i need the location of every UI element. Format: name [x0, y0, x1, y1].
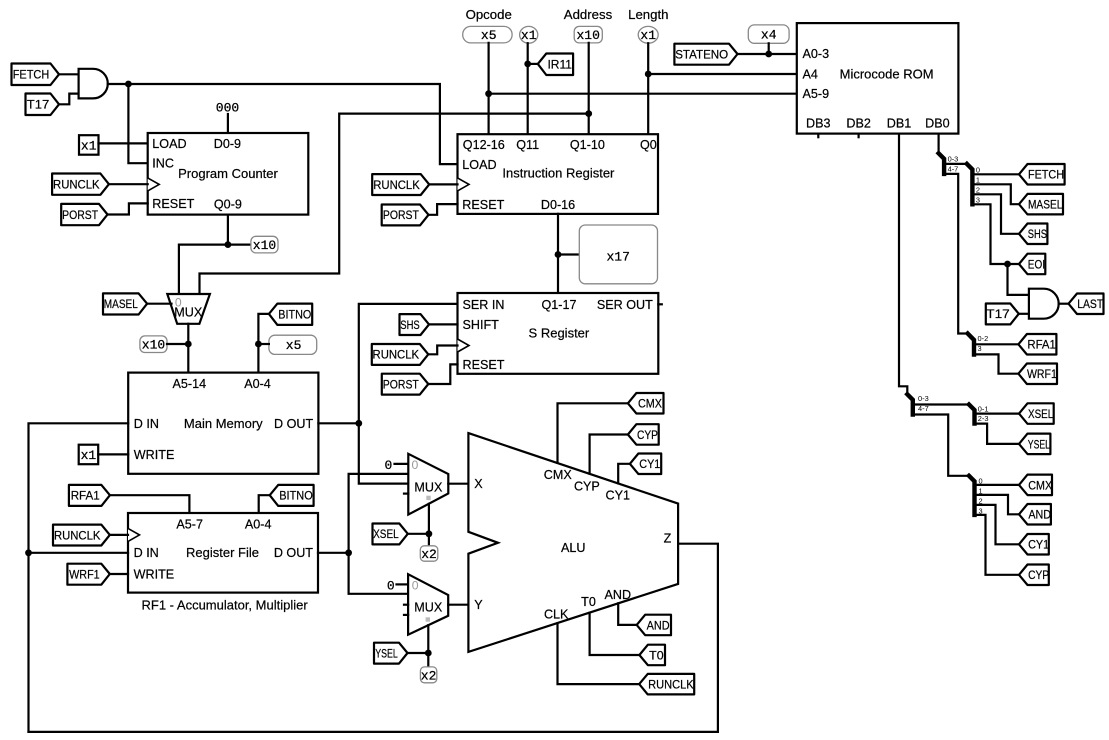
tunnel BITNO (Main Memory) [269, 304, 312, 325]
svg-text:Opcode: Opcode [466, 7, 512, 22]
svg-text:CMX: CMX [1028, 478, 1052, 492]
wire U1 output to junction [108, 83, 129, 85]
wire junction to Main Memory A0-4 [257, 344, 259, 373]
svg-text:IR11: IR11 [547, 57, 572, 71]
mux Y M3 [408, 574, 448, 635]
svg-text:AND: AND [605, 588, 632, 602]
svg-text:RUNCLK: RUNCLK [373, 178, 420, 192]
svg-text:RUNCLK: RUNCLK [54, 528, 101, 542]
wire S5 bits 0-1 to XSEL [975, 413, 1020, 415]
wire MUX Y output to ALU Y [448, 604, 468, 606]
wire YSEL to Y select node [408, 652, 429, 654]
junction IR11 tap [524, 61, 531, 68]
svg-text:Address: Address [564, 7, 613, 22]
svg-text:SHS: SHS [400, 318, 420, 332]
wire PC output to MUX M1 input 0 [179, 245, 228, 294]
svg-text:RESET: RESET [462, 198, 504, 212]
splitter S6 (DB1 bits 4-7) [969, 476, 975, 515]
wire ALU CYP port to tunnel [590, 435, 628, 474]
wire PORST to PC RESET [108, 203, 148, 214]
tunnel MASEL (microcode bit) [1019, 194, 1063, 215]
junction RF data out node [345, 549, 352, 556]
pin x1 (Main Memory WRITE) [79, 445, 99, 465]
svg-text:A4: A4 [803, 68, 818, 82]
pin stub SER OUT [658, 303, 662, 305]
svg-text:XSEL: XSEL [373, 527, 399, 541]
wire T17 to AND gate U9 input 2 [1019, 313, 1029, 315]
probe x10 (address field) [574, 26, 602, 43]
probe x1 (IR11 bit) [520, 26, 538, 43]
svg-text:A0-4: A0-4 [245, 518, 272, 532]
select marker square MUX X [426, 496, 430, 500]
wire S1 branch 4-7 down to splitter S3 [944, 174, 968, 334]
svg-text:0-3: 0-3 [918, 394, 929, 403]
clock pin triangle of U2 [148, 178, 160, 191]
wire RF D OUT to junction [318, 552, 349, 554]
svg-text:RUNCLK: RUNCLK [373, 348, 420, 362]
wire MM data out vertical (S Register SER IN to MUX X input 2) [359, 304, 458, 484]
probe x4 (state number) [748, 25, 789, 43]
svg-text:x10: x10 [142, 337, 165, 352]
wire constant 0 to MUX X [395, 463, 409, 465]
and gate U9 [1029, 289, 1059, 319]
splitter S4 (DB1 byte to nibbles) [907, 394, 913, 414]
wire PORST to S Register RESET [428, 364, 457, 384]
tunnel FETCH (microcode bit) [1019, 164, 1065, 185]
svg-text:CY1: CY1 [1028, 538, 1049, 552]
svg-text:DB1: DB1 [887, 117, 912, 131]
tunnel PORST (PC) [61, 204, 107, 225]
svg-text:A5-14: A5-14 [172, 377, 206, 391]
svg-text:0-1: 0-1 [978, 405, 989, 414]
tunnel SHS [400, 314, 430, 335]
svg-text:PORST: PORST [383, 208, 419, 222]
pin stub MUX Y input 2 [404, 604, 408, 606]
tunnel RUNCLK (ALU) [639, 674, 694, 695]
tunnel RFA1 (microcode field) [1018, 334, 1056, 355]
wire MM D IN from left feedback rail [29, 423, 129, 732]
svg-text:YSEL: YSEL [375, 646, 398, 660]
probe x5 (opcode field) [463, 26, 512, 43]
wire constant 0 to MUX Y [397, 583, 409, 585]
wire 000 to PC D0-9 [227, 114, 229, 133]
wire x1 to PC LOAD [99, 142, 148, 144]
tunnel YSEL (microcode field) [1019, 434, 1050, 455]
svg-text:T0: T0 [649, 648, 664, 662]
wire RUNCLK to IR clock [429, 183, 457, 185]
junction state number tap [765, 51, 772, 58]
svg-text:Microcode ROM: Microcode ROM [840, 67, 934, 82]
svg-text:MUX: MUX [414, 600, 443, 614]
tunnel T0 (ALU) [639, 645, 665, 666]
and gate U1 [79, 69, 108, 99]
wire x1 probe to IR Q11 [527, 43, 529, 134]
tunnel RUNCLK (RF) [53, 525, 110, 546]
wire RUNCLK to RF clock [110, 534, 128, 536]
clock pin triangle of U4 [128, 528, 140, 541]
svg-text:A0-4: A0-4 [244, 377, 271, 391]
svg-text:0-2: 0-2 [978, 334, 989, 343]
tunnel XSEL [373, 524, 408, 545]
wire probe x5 to junction [258, 343, 269, 345]
svg-text:YSEL: YSEL [1028, 437, 1050, 451]
tunnel XSEL (microcode field) [1019, 403, 1054, 424]
wire junction to probe x17 [558, 253, 579, 255]
svg-text:CMX: CMX [544, 468, 573, 482]
svg-text:Program Counter: Program Counter [178, 166, 278, 181]
tunnel SHS (microcode bit) [1019, 224, 1047, 245]
svg-text:WRITE: WRITE [134, 567, 175, 581]
probe x5 (bit number) [269, 335, 317, 354]
instruction register U5 [458, 134, 659, 214]
splitter S3 (DB0 bits 4-7) [968, 334, 974, 355]
junction PC output node [225, 241, 232, 248]
junction length tap to ROM A4 [645, 71, 652, 78]
tunnel T17 (top left) [26, 94, 60, 116]
wire ALU AND port to tunnel [618, 603, 637, 625]
svg-text:SER IN: SER IN [463, 298, 505, 312]
svg-text:LOAD: LOAD [462, 158, 496, 172]
wire RUNCLK to PC clock [109, 183, 148, 185]
wire MUX X select [428, 504, 430, 534]
splitter S2 (bits 0-3) [967, 164, 973, 204]
wire S6 bit1 to AND [975, 495, 1020, 514]
svg-text:BITNO: BITNO [279, 489, 313, 503]
svg-text:RFA1: RFA1 [1027, 338, 1056, 352]
svg-text:D OUT: D OUT [274, 417, 313, 431]
svg-text:A5-9: A5-9 [803, 87, 830, 101]
wire S2 bit3 to EOI [972, 204, 1019, 264]
svg-text:RESET: RESET [463, 358, 505, 372]
pin stub MUX X input 3 [404, 493, 408, 495]
junction bit number node [255, 341, 262, 348]
wire WRF1 to RF WRITE [110, 573, 128, 575]
junction at AND output [125, 81, 132, 88]
svg-text:CMX: CMX [638, 397, 662, 411]
tunnel BITNO (Register File) [270, 485, 314, 506]
junction MM data out node [355, 420, 362, 427]
svg-text:Q0-9: Q0-9 [214, 197, 242, 211]
svg-text:T17: T17 [986, 307, 1010, 321]
svg-text:A5-7: A5-7 [176, 518, 203, 532]
svg-text:RFA1: RFA1 [71, 489, 100, 503]
tunnel YSEL [374, 643, 408, 664]
wire S2 bit2 to SHS [972, 194, 1019, 234]
probe x2 (X select) [420, 546, 438, 561]
wire opcode tap to ROM A5-9 [489, 93, 797, 95]
wire x10 probe to IR Q1-10 [588, 43, 590, 134]
select marker square MUX Y [426, 617, 430, 621]
svg-text:X: X [474, 477, 483, 491]
probe x1 (length bit) [638, 26, 658, 43]
svg-text:0: 0 [387, 578, 395, 593]
wire MM D OUT to junction [318, 422, 358, 424]
splitter S5 (XSEL/YSEL pairs) [969, 405, 975, 424]
tunnel AND (ALU) [637, 615, 671, 636]
wire MUX X output to ALU X [448, 483, 468, 485]
svg-text:x17: x17 [606, 250, 629, 265]
wire x4 probe to junction [768, 43, 770, 54]
tunnel LAST [1069, 294, 1104, 315]
svg-text:x10: x10 [253, 238, 276, 253]
svg-text:FETCH: FETCH [13, 68, 50, 82]
svg-text:x5: x5 [286, 338, 302, 353]
tunnel IR11 [538, 54, 573, 76]
tunnel RUNCLK (S Register) [372, 344, 429, 365]
tunnel CMX (microcode bit) [1019, 475, 1052, 496]
junction feedback rail to RF D IN [25, 549, 32, 556]
svg-text:MUX: MUX [414, 481, 443, 495]
svg-text:WRF1: WRF1 [69, 567, 100, 581]
svg-text:T0: T0 [581, 595, 596, 609]
wire S2 bit1 to MASEL [972, 184, 1019, 204]
tunnel PORST (IR) [382, 205, 429, 226]
wire M1 output to junction [187, 324, 189, 344]
junction address tap to MUX M1 [585, 110, 592, 117]
svg-text:S Register: S Register [529, 325, 590, 340]
svg-text:LAST: LAST [1077, 297, 1103, 311]
svg-text:RESET: RESET [152, 197, 194, 211]
svg-text:Register File: Register File [186, 545, 259, 560]
svg-text:x2: x2 [421, 547, 437, 562]
svg-text:Q1-10: Q1-10 [570, 138, 605, 152]
register file U4 [128, 513, 318, 593]
svg-text:x1: x1 [81, 138, 97, 153]
svg-text:D0-9: D0-9 [214, 137, 241, 151]
wire RF data out vertical to MUX X input 1 and MUX Y input 1 [349, 474, 409, 594]
svg-text:CYP: CYP [637, 428, 658, 442]
splitter S1 (DB0 byte to nibbles) [939, 153, 945, 174]
wire S3 bits 0-2 to RFA1 [974, 343, 1018, 345]
tunnel WRF1 (microcode bit) [1018, 364, 1057, 385]
svg-text:XSEL: XSEL [1028, 407, 1053, 421]
svg-text:Main Memory: Main Memory [184, 416, 263, 431]
wire T17 to AND gate U1 input 2 [59, 94, 79, 105]
microcode rom U6 [797, 23, 959, 134]
mux M1 (memory address select) [167, 294, 210, 324]
svg-text:x4: x4 [761, 28, 777, 43]
svg-text:CLK: CLK [544, 608, 569, 622]
svg-text:CY1: CY1 [639, 457, 660, 471]
wire DB0 trunk down to splitter S1 [937, 134, 939, 154]
wire feedback rail bottom run to ALU Z [29, 544, 718, 732]
svg-text:T17: T17 [27, 98, 50, 112]
pin stub DB3 [817, 134, 819, 138]
wire ALU T0 port to tunnel [590, 613, 640, 655]
s register U7 [458, 293, 659, 374]
svg-text:STATENO: STATENO [675, 47, 728, 61]
wire S5 bits 2-3 to YSEL [975, 424, 1020, 444]
probe x17 (instruction word) [579, 225, 657, 284]
svg-text:WRF1: WRF1 [1027, 367, 1057, 381]
wire RFA1 to RF A5-7 [110, 495, 189, 513]
wire S3 bit 3 to WRF1 [974, 354, 1018, 373]
tunnel AND (microcode bit) [1019, 504, 1051, 525]
pin stub MUX Y input 3 [404, 614, 408, 616]
probe x2 (Y select) [420, 667, 436, 683]
svg-text:PORST: PORST [383, 377, 419, 391]
tunnel CY1 (microcode bit) [1019, 534, 1049, 555]
svg-text:EOI: EOI [1028, 257, 1045, 271]
svg-text:CYP: CYP [1028, 568, 1049, 582]
junction X select node [426, 530, 433, 537]
tunnel CYP (microcode bit) [1019, 565, 1049, 586]
wire XSEL to X select node [408, 533, 429, 535]
wire junction to Main Memory A5-14 [187, 344, 189, 373]
wire S4 branch 0-3 to splitter S5 [913, 403, 969, 405]
svg-text:Q1-17: Q1-17 [541, 298, 576, 312]
wire ALU CMX port to tunnel [558, 403, 628, 463]
tunnel CY1 (ALU) [630, 454, 661, 475]
tunnel EOI (microcode bit) [1019, 254, 1045, 275]
svg-text:Q0: Q0 [640, 138, 657, 152]
wire PC Q0-9 down to junction [227, 215, 229, 245]
wire S4 branch 4-7 down to splitter S6 [913, 415, 969, 476]
svg-text:MUX: MUX [174, 305, 203, 319]
svg-text:WRITE: WRITE [134, 448, 175, 462]
svg-text:CYP: CYP [574, 479, 600, 493]
tunnel PORST (S Register) [382, 374, 429, 395]
wire S2 bit0 to FETCH [972, 173, 1019, 175]
wire junction to Program Counter INC [128, 84, 147, 163]
program counter U2 [148, 133, 309, 215]
wire SHS to S Register SHIFT [429, 323, 458, 325]
svg-text:FETCH: FETCH [1028, 168, 1064, 182]
wire PORST to IR RESET [429, 204, 458, 215]
mux X M2 [408, 454, 448, 515]
tunnel T17 (LAST gate input) [986, 304, 1019, 325]
tunnel WRF1 [67, 564, 109, 585]
tunnel RUNCLK (PC) [52, 174, 109, 195]
svg-text:Z: Z [664, 532, 672, 546]
svg-text:A0-3: A0-3 [803, 47, 830, 61]
svg-text:CY1: CY1 [606, 488, 631, 502]
wire x5 probe to IR Q12-16 with tap to ROM A5-9 [488, 43, 490, 134]
svg-text:0-3: 0-3 [948, 154, 959, 163]
svg-text:x5: x5 [481, 28, 497, 43]
wire DB1 trunk down to splitter S4 [899, 134, 907, 395]
tunnel RUNCLK (IR) [372, 174, 429, 195]
wire probe to junction [167, 343, 188, 345]
svg-text:x2: x2 [421, 668, 437, 683]
wire ALU CY1 port to tunnel [618, 464, 630, 484]
svg-text:BITNO: BITNO [278, 307, 311, 321]
svg-text:x1: x1 [81, 448, 97, 463]
svg-text:D IN: D IN [134, 417, 159, 431]
svg-text:RUNCLK: RUNCLK [53, 178, 100, 192]
svg-text:0: 0 [412, 578, 419, 592]
tunnel RFA1 (Register File address) [69, 485, 110, 506]
svg-text:DB3: DB3 [806, 117, 831, 131]
wire EOI node to AND gate U9 input 1 [1008, 264, 1029, 295]
wire x1 to MM WRITE [98, 453, 128, 455]
junction Y select node [425, 650, 432, 657]
wire X select node to probe x2 [428, 534, 430, 546]
svg-text:0: 0 [384, 458, 392, 473]
svg-text:RUNCLK: RUNCLK [648, 678, 694, 692]
wire junction to Instruction Register LOAD [128, 84, 457, 164]
clock pin triangle of U7 [458, 339, 470, 352]
junction EOI node [1004, 261, 1011, 268]
wire S6 bit3 to CYP [975, 515, 1020, 575]
wire STATENO to ROM A0-3 [738, 53, 797, 55]
pin x1 (PC LOAD enable) [79, 135, 99, 155]
svg-text:Q12-16: Q12-16 [463, 138, 505, 152]
svg-text:PORST: PORST [62, 208, 98, 222]
wire BITNO to junction [258, 314, 269, 344]
svg-text:SHS: SHS [1028, 227, 1047, 241]
main memory U3 [128, 373, 318, 474]
svg-text:DB2: DB2 [846, 117, 871, 131]
svg-text:D0-16: D0-16 [541, 198, 575, 212]
svg-text:Y: Y [474, 598, 483, 612]
wire Y select node to probe x2 [427, 653, 429, 667]
svg-text:x10: x10 [576, 28, 599, 43]
svg-text:MASEL: MASEL [1028, 198, 1063, 212]
svg-text:INC: INC [152, 157, 174, 171]
svg-text:AND: AND [1028, 508, 1051, 522]
tunnel FETCH (top left) [12, 64, 60, 86]
probe x10 (memory address) [140, 336, 167, 353]
pin stub DB2 [857, 134, 859, 138]
wire MUX Y select [427, 625, 429, 653]
wire BITNO to RF A0-4 [259, 495, 270, 513]
wire x1 probe to IR Q0 [647, 43, 649, 134]
svg-text:DB0: DB0 [925, 117, 950, 131]
junction M1 output node [185, 341, 192, 348]
svg-text:2-3: 2-3 [978, 414, 989, 423]
svg-text:x1: x1 [640, 28, 656, 43]
wire junction to probe x10 [228, 244, 251, 246]
svg-text:MASEL: MASEL [104, 297, 138, 311]
wire FETCH to AND gate U1 input 1 [59, 73, 79, 75]
clock pin triangle of U5 [458, 178, 470, 191]
svg-text:Q11: Q11 [516, 138, 539, 152]
svg-text:0: 0 [412, 458, 419, 472]
wire MASEL to M1 select [147, 303, 171, 305]
svg-text:AND: AND [647, 618, 670, 632]
probe x10 (PC output) [251, 236, 278, 253]
wire ALU CLK port to tunnel [558, 623, 640, 684]
wire S6 bit2 to CY1 [975, 505, 1020, 544]
svg-text:Instruction Register: Instruction Register [502, 166, 615, 181]
tunnel STATENO [674, 44, 737, 65]
svg-text:x1: x1 [521, 28, 537, 43]
wire IR D0-16 down to S Register Q1-17 [557, 214, 559, 293]
svg-text:ALU: ALU [561, 541, 586, 555]
tunnel MASEL [103, 293, 147, 314]
alu U8 [468, 433, 678, 652]
tunnel CYP (ALU) [628, 424, 659, 445]
wire S6 bit0 to CMX [975, 484, 1020, 486]
svg-text:Length: Length [628, 7, 668, 22]
junction opcode tap [485, 90, 492, 97]
svg-text:D IN: D IN [134, 546, 159, 560]
wire RUNCLK to S Register clock [428, 346, 457, 355]
wire RF D IN from feedback rail [29, 552, 129, 554]
wire S1 branch 0-3 to splitter S2 [944, 163, 967, 165]
wire junction to IR11 [528, 63, 538, 65]
wire IR Q1-10 to MUX M1 input 1 [200, 114, 589, 294]
svg-text:4-7: 4-7 [948, 165, 959, 174]
wire U9 output to LAST [1059, 303, 1069, 305]
junction instruction word tap [555, 251, 562, 258]
svg-text:LOAD: LOAD [152, 137, 186, 151]
svg-text:D OUT: D OUT [274, 546, 313, 560]
wire length tap to ROM A4 [648, 73, 797, 75]
svg-text:SER OUT: SER OUT [597, 298, 653, 312]
tunnel CMX (ALU) [628, 393, 664, 414]
